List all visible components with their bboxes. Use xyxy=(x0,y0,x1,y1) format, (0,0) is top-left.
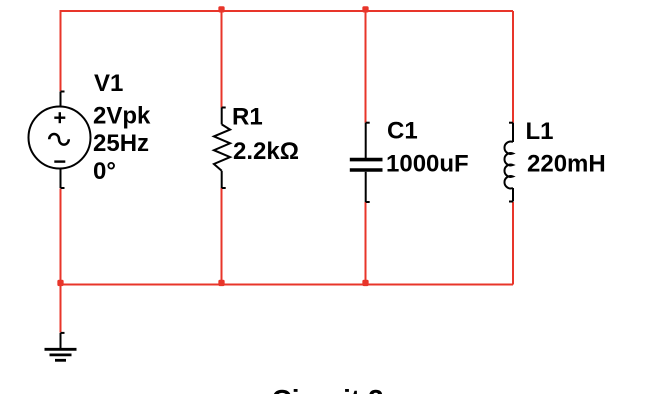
svg-text:2Vpk: 2Vpk xyxy=(93,103,151,130)
wire top rail xyxy=(61,10,514,12)
V1 sine symbol xyxy=(49,134,69,145)
svg-text:2.2kΩ: 2.2kΩ xyxy=(233,138,299,165)
wire L1 bottom drop xyxy=(512,202,514,285)
wire V1 to bottom rail xyxy=(60,188,62,284)
wire bottom rail xyxy=(61,284,514,286)
V1 plus sign xyxy=(54,112,65,123)
V1 minus sign xyxy=(54,160,65,162)
node junction dot bottom C1 xyxy=(362,280,368,286)
wire R1 bottom drop xyxy=(221,188,223,285)
AC source V1 xyxy=(29,92,91,189)
node junction dot top C1 xyxy=(362,6,368,12)
svg-text:V1: V1 xyxy=(94,70,123,97)
ground xyxy=(45,333,77,360)
svg-text:0°: 0° xyxy=(93,158,116,185)
svg-text:C1: C1 xyxy=(387,117,418,144)
wire ground drop xyxy=(60,285,62,333)
capacitor C1 xyxy=(350,123,383,202)
resistor R1 xyxy=(214,108,230,189)
wire L1 top drop xyxy=(512,11,514,123)
node junction dot top R1 xyxy=(218,6,224,12)
svg-text:L1: L1 xyxy=(526,118,554,145)
node junction dot bottom ground xyxy=(57,280,63,286)
svg-text:220mH: 220mH xyxy=(527,151,606,178)
svg-text:R1: R1 xyxy=(232,103,263,130)
wire R1 top drop xyxy=(221,11,223,108)
wire left drop to V1 xyxy=(60,10,62,91)
svg-text:Circuit 2: Circuit 2 xyxy=(272,384,384,394)
inductor L1 xyxy=(504,123,513,202)
svg-text:25Hz: 25Hz xyxy=(93,130,149,157)
svg-text:1000uF: 1000uF xyxy=(386,151,469,178)
wire C1 bottom drop xyxy=(365,202,367,285)
wire C1 top drop xyxy=(365,11,367,123)
node junction dot bottom R1 xyxy=(218,280,224,286)
